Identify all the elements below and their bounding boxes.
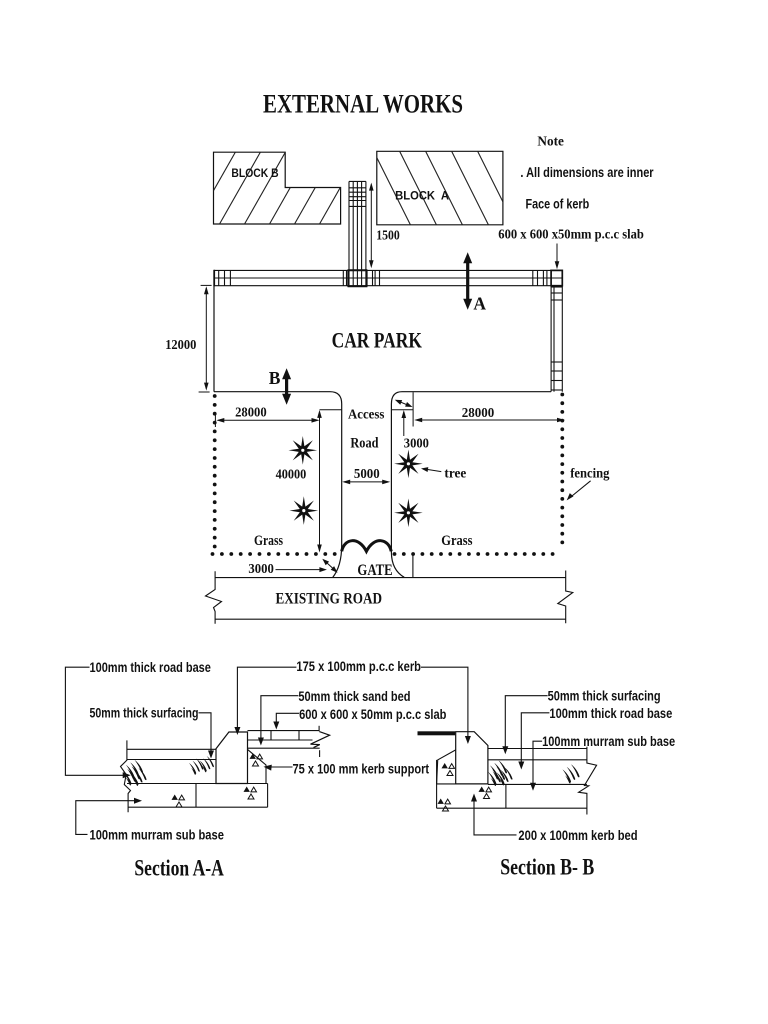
gate radius diagonal arrow [324,561,335,571]
section A-A triangles kerb bed [244,787,257,792]
section B-B flame hatch left [490,760,507,779]
section A-A kerb support [248,749,267,783]
svg-text:50mm thick surfacing: 50mm thick surfacing [548,689,661,704]
section A-A flame hatch middle [189,759,203,775]
section marker A [466,262,469,300]
section A-A base bottom line [127,783,268,785]
kerb band left end ticks [214,270,230,286]
svg-text:Access: Access [348,407,385,422]
svg-text:5000: 5000 [354,467,380,482]
section B-B bed top left [437,783,456,785]
dimension 12000 [205,288,207,389]
svg-text:12000: 12000 [165,338,196,353]
slab label arrow [556,244,558,263]
section A-A left break [121,740,131,812]
section A-A murram divider [195,784,197,808]
svg-text:175 x 100mm p.c.c kerb: 175 x 100mm p.c.c kerb [296,659,421,674]
walkway kerb crossing bold [347,270,349,286]
fence dots left bottom row [211,552,215,556]
section B-B flame hatch right [563,764,580,783]
existing road right break [558,571,573,624]
fence dots left column [213,394,217,398]
access road right kerb [391,392,404,578]
svg-text:Grass: Grass [441,533,473,549]
svg-text:Section B- B: Section B- B [500,854,594,879]
svg-text:EXTERNAL WORKS: EXTERNAL WORKS [263,90,463,119]
dimension 1500 [370,185,372,267]
section B-B triangles bed left [438,799,451,804]
svg-text:. All dimensions are inner: . All dimensions are inner [520,165,654,180]
section A-A triangles kerb support [250,754,263,759]
section A-A slab break [311,732,330,748]
svg-text:28000: 28000 [235,406,267,421]
car park left edge [213,286,215,392]
section A-A slab leader [276,713,299,722]
section B-B triangles bed [479,787,492,792]
fence dots right bottom row [393,552,397,556]
section A-A kerb support leader [269,766,293,768]
svg-text:CAR PARK: CAR PARK [332,327,422,352]
section A-A slab row [248,730,320,732]
section B-B base bottom line [488,783,587,785]
dimension 28000 right [417,419,563,421]
section B-B bed divider [505,784,507,808]
dimension 5000 [344,481,388,483]
car park bottom edge right [402,391,551,393]
svg-text:Face of kerb: Face of kerb [526,197,590,212]
kerb band ticks near walkway [343,270,379,285]
svg-text:28000: 28000 [462,406,495,421]
section A-A kerb leader [237,667,296,728]
block A outline [377,151,503,225]
svg-text:Grass: Grass [254,533,283,549]
corner tick lines 3000 [412,392,414,426]
svg-text:50mm thick surfacing: 50mm thick surfacing [90,705,199,720]
section A-A road base leader [65,667,124,775]
section B-B bed and murram bottom [437,807,587,809]
fence dots right column [560,393,564,397]
section A-A murram right edge [267,784,269,808]
kerb band right ticks [533,270,547,285]
section B-B surface lines [488,748,587,750]
svg-text:BLOCK B: BLOCK B [231,166,278,180]
section B-B surfacing leader [505,696,547,747]
svg-text:3000: 3000 [248,562,273,577]
svg-text:600 x 600 x50mm p.c.c slab: 600 x 600 x50mm p.c.c slab [498,227,644,242]
svg-text:B: B [269,368,281,388]
corner radius diagonal arrow [398,401,410,406]
section B-B kerb bed leader [474,801,517,835]
svg-text:BLOCK A: BLOCK A [395,189,449,203]
section A-A sand line [248,747,320,749]
section A-A murram leader [76,801,136,835]
dimension 28000 left [219,419,318,421]
svg-text:100mm thick road base: 100mm thick road base [90,660,212,675]
kerb band right corner box [551,270,562,285]
walkway slab path [349,181,366,286]
svg-text:Road: Road [350,436,378,452]
dimension 3000 vertical [403,412,405,436]
svg-text:75 x 100 mm kerb support: 75 x 100 mm kerb support [293,761,430,776]
svg-text:3000: 3000 [404,437,429,452]
dimension 40000 line [319,412,321,547]
section B-B road base leader [521,713,549,762]
section B-B black bar [418,731,456,735]
gate [342,541,392,552]
block B outline [214,152,341,224]
section A-A sand leader [261,696,299,739]
section A-A flame hatch left [126,760,143,779]
existing road bottom line [215,618,566,620]
section A-A kerb leader right to B-B [421,667,468,736]
svg-text:200 x 100mm kerb bed: 200 x 100mm kerb bed [518,828,637,843]
svg-text:40000: 40000 [276,467,307,482]
svg-text:50mm thick sand bed: 50mm thick sand bed [298,689,410,704]
svg-text:fencing: fencing [570,466,609,481]
trees left [289,436,318,465]
section A-A triangles murram [172,795,185,800]
section A-A surface lines [127,748,216,750]
svg-text:100mm murram sub base: 100mm murram sub base [90,827,225,842]
car park kerb band [214,270,562,285]
svg-text:600 x 600 x 50mm p.c.c slab: 600 x 600 x 50mm p.c.c slab [299,707,446,722]
trees right [394,450,423,479]
section A-A kerb [216,732,248,784]
section B-B kerb [456,732,488,784]
section B-B triangles support [442,763,455,768]
svg-text:1500: 1500 [376,228,400,243]
svg-text:GATE: GATE [357,562,392,579]
svg-text:EXISTING ROAD: EXISTING ROAD [276,590,383,607]
section B-B murram leader [533,741,542,783]
section B-B kerb support [437,750,456,784]
right kerb band vertical [551,286,562,392]
svg-text:Note: Note [537,133,564,148]
svg-text:100mm murram sub base: 100mm murram sub base [542,734,675,749]
svg-text:100mm thick road base: 100mm thick road base [549,706,672,721]
section B-B right break [579,747,597,815]
access road left kerb [330,392,342,578]
section marker B [285,378,288,396]
section B-B bed left edge [436,760,438,808]
section A-A murram bottom line [129,806,268,808]
svg-text:tree: tree [444,467,466,482]
existing road top line [215,577,566,579]
existing road left break [206,571,222,624]
svg-text:Section A-A: Section A-A [134,855,224,880]
svg-text:A: A [473,293,486,313]
section A-A surfacing leader [199,713,212,752]
car park bottom edge left [214,391,330,393]
